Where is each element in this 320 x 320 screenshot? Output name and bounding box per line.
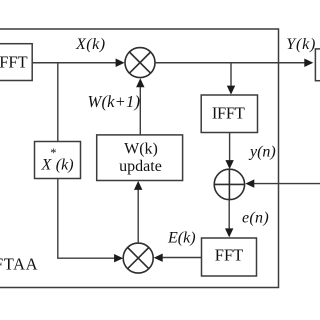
svg-text:W(k+1): W(k+1) [88,92,141,111]
arrowhead into output box [304,59,313,67]
wire M1 output to right (Y(k) out) [155,62,305,64]
adder A1 (plus circle) [214,169,244,199]
arrowhead into W(k) update bottom [134,181,142,190]
svg-text:FTAA: FTAA [0,255,38,274]
wire FFT to multiplier M1 [32,62,116,64]
svg-text:y(n): y(n) [248,144,276,161]
arrowhead into M2 left [114,254,123,262]
svg-text:e(n): e(n) [242,210,269,227]
wire branch down to IFFT [230,63,232,86]
block W(k) update [97,135,183,181]
arrowhead into adder [225,160,233,169]
wire W(k) update up to multiplier M1 [139,87,141,135]
svg-text:IFFT: IFFT [212,104,245,123]
output box (clipped at right edge) [315,49,320,81]
wire FFT bottom to multiplier M2 (E(k) path) [163,257,202,259]
svg-text:X(k): X(k) [75,36,106,53]
block FFT (top-left, clipped) [0,44,32,81]
svg-text:update: update [119,158,162,175]
outer box FTAA [0,29,279,288]
multiplier M1 (top) [125,48,155,78]
wire adder to FFT (bottom) [228,200,230,229]
arrowhead into M1 bottom [136,78,144,87]
wire external input d(n) from right into adder [254,183,320,185]
block IFFT [201,95,257,133]
wire branch down to X*(k) box [57,63,59,142]
wire IFFT to adder A1 [229,133,231,161]
block X*(k) [35,142,81,179]
svg-text:E(k): E(k) [167,230,196,247]
svg-text:FFT: FFT [215,246,243,265]
arrowhead into M1 [116,59,125,67]
arrowhead into M2 right [154,254,163,262]
svg-text:FFT: FFT [0,53,28,72]
svg-text:(k): (k) [56,157,74,174]
block FFT (bottom) [202,238,257,276]
wire M2 up to W(k) update box [137,190,139,244]
arrowhead into adder right [245,179,254,187]
multiplier M2 (bottom) [123,243,153,273]
svg-text:Y(k): Y(k) [286,36,316,53]
svg-text:W(k): W(k) [124,141,158,158]
arrowhead into IFFT [227,86,235,95]
wire X*(k) down and right to multiplier M2 [58,179,115,259]
arrowhead into FFT bottom box [225,228,233,237]
